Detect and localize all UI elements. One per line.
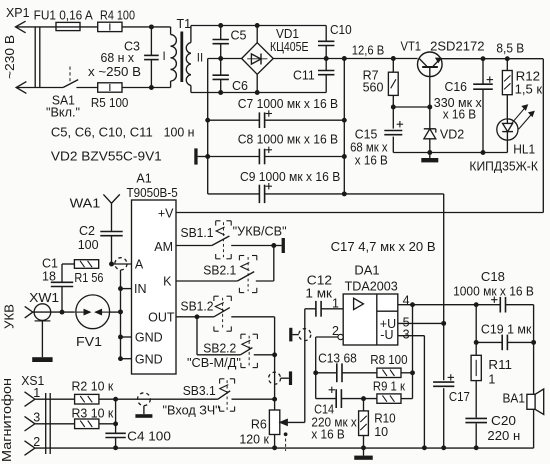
svg-text:УКВ: УКВ	[3, 304, 17, 329]
svg-text:R9 1 к: R9 1 к	[373, 380, 406, 394]
svg-text:2: 2	[33, 435, 40, 449]
svg-text:VD2: VD2	[440, 128, 464, 142]
svg-text:SB2.2: SB2.2	[203, 342, 236, 356]
svg-text:C5, C6, C10, C11: C5, C6, C10, C11	[51, 126, 153, 140]
svg-text:"Вход ЗЧ": "Вход ЗЧ"	[163, 403, 220, 417]
svg-text:C7 1000 мк х 16 В: C7 1000 мк х 16 В	[238, 97, 338, 111]
svg-text:8,5 В: 8,5 В	[496, 41, 524, 55]
svg-text:120 к: 120 к	[239, 433, 269, 447]
svg-text:A1: A1	[136, 172, 151, 186]
svg-text:C19 1 мк: C19 1 мк	[481, 323, 532, 337]
svg-text:T1: T1	[177, 17, 192, 31]
svg-text:C8 1000 мк х 16 В: C8 1000 мк х 16 В	[238, 133, 338, 147]
svg-text:3: 3	[33, 411, 40, 425]
svg-text:68 н х: 68 н х	[101, 51, 135, 65]
svg-text:3: 3	[403, 327, 410, 341]
svg-text:WA1: WA1	[70, 196, 101, 210]
svg-text:A: A	[135, 257, 144, 271]
svg-text:VD2 BZV55C-9V1: VD2 BZV55C-9V1	[51, 149, 162, 163]
svg-text:C4 100: C4 100	[127, 430, 171, 444]
svg-text:BA1: BA1	[503, 391, 526, 405]
svg-text:2: 2	[332, 324, 339, 338]
svg-text:КЦ405Е: КЦ405Е	[270, 40, 309, 54]
svg-text:4: 4	[403, 294, 410, 308]
svg-text:100: 100	[78, 238, 99, 252]
svg-text:R5 100: R5 100	[91, 96, 129, 110]
svg-text:VT1: VT1	[401, 40, 422, 54]
svg-text:SB3.1: SB3.1	[183, 384, 216, 398]
svg-text:OUT: OUT	[148, 310, 175, 324]
svg-text:C10: C10	[330, 23, 352, 37]
svg-text:2SD2172: 2SD2172	[430, 40, 484, 54]
svg-text:R11: R11	[488, 358, 512, 372]
svg-text:FV1: FV1	[76, 335, 102, 349]
svg-text:х 16 В: х 16 В	[311, 428, 344, 442]
svg-text:TDA2003: TDA2003	[345, 279, 398, 293]
svg-text:C15: C15	[355, 128, 378, 142]
svg-text:AM: AM	[154, 240, 173, 254]
svg-text:R2 10 к: R2 10 к	[72, 379, 114, 393]
svg-text:Магнитофон: Магнитофон	[0, 378, 14, 462]
svg-text:220 н: 220 н	[487, 429, 520, 443]
svg-text:х 16 В: х 16 В	[355, 154, 388, 168]
svg-text:GND: GND	[135, 352, 163, 366]
svg-text:GND: GND	[135, 331, 163, 345]
svg-text:"УКВ/СВ": "УКВ/СВ"	[233, 224, 287, 238]
svg-text:1: 1	[332, 296, 339, 310]
svg-text:C14: C14	[314, 402, 334, 416]
svg-text:х ~250 В: х ~250 В	[88, 65, 141, 79]
svg-text:C9 1000 мк х 16 В: C9 1000 мк х 16 В	[240, 170, 340, 184]
svg-text:"СВ-М/Д": "СВ-М/Д"	[187, 356, 241, 370]
svg-text:FU1 0,16 A: FU1 0,16 A	[34, 8, 94, 22]
svg-text:68 мк х: 68 мк х	[350, 141, 388, 155]
svg-text:C11: C11	[293, 68, 315, 82]
svg-text:R4 100: R4 100	[100, 8, 135, 22]
svg-text:1: 1	[488, 373, 495, 387]
svg-text:100 н: 100 н	[164, 126, 195, 140]
svg-text:х 16 В: х 16 В	[443, 108, 477, 122]
svg-text:C17 4,7 мк х 20 В: C17 4,7 мк х 20 В	[331, 240, 436, 254]
svg-text:R6: R6	[251, 418, 267, 432]
svg-text:C13 68: C13 68	[318, 351, 357, 365]
svg-text:18: 18	[42, 269, 56, 283]
svg-text:C5: C5	[231, 28, 247, 42]
svg-text:R3 10 к: R3 10 к	[72, 406, 114, 420]
svg-text:1000 мк х 16 В: 1000 мк х 16 В	[453, 284, 534, 298]
svg-text:C2: C2	[79, 224, 95, 238]
svg-text:R1 56: R1 56	[74, 271, 103, 285]
svg-text:C6: C6	[232, 79, 248, 93]
svg-text:I: I	[163, 51, 166, 63]
svg-text:~230 В: ~230 В	[3, 35, 17, 79]
svg-text:C20: C20	[491, 414, 516, 428]
svg-text:560: 560	[363, 80, 384, 94]
svg-text:SB1.1: SB1.1	[181, 226, 214, 240]
svg-text:-U: -U	[380, 328, 393, 342]
svg-text:R10: R10	[374, 412, 395, 426]
svg-text:T9050B-5: T9050B-5	[127, 186, 178, 200]
svg-text:SB2.1: SB2.1	[203, 264, 236, 278]
svg-text:10: 10	[374, 425, 388, 439]
svg-text:R8 100: R8 100	[370, 353, 407, 367]
svg-text:HL1: HL1	[513, 142, 535, 156]
svg-text:C16: C16	[445, 80, 468, 94]
svg-text:XW1: XW1	[29, 291, 59, 305]
svg-text:IN: IN	[134, 282, 147, 296]
svg-text:K: K	[163, 274, 172, 288]
svg-text:SB1.2: SB1.2	[181, 300, 214, 314]
svg-text:II: II	[197, 53, 203, 65]
svg-text:C17: C17	[449, 390, 470, 404]
svg-text:C18: C18	[481, 270, 505, 284]
svg-text:1,5 к: 1,5 к	[515, 82, 543, 96]
svg-text:1: 1	[33, 386, 40, 400]
svg-text:+V: +V	[158, 206, 174, 220]
svg-text:DA1: DA1	[354, 264, 379, 278]
svg-text:XP1: XP1	[6, 6, 30, 20]
svg-text:12,6 В: 12,6 В	[352, 44, 385, 58]
svg-text:1 мк: 1 мк	[305, 286, 332, 300]
svg-text:C1: C1	[42, 256, 58, 270]
svg-text:"Вкл.": "Вкл."	[46, 106, 80, 120]
svg-text:КИПД35Ж-К: КИПД35Ж-К	[469, 159, 538, 173]
